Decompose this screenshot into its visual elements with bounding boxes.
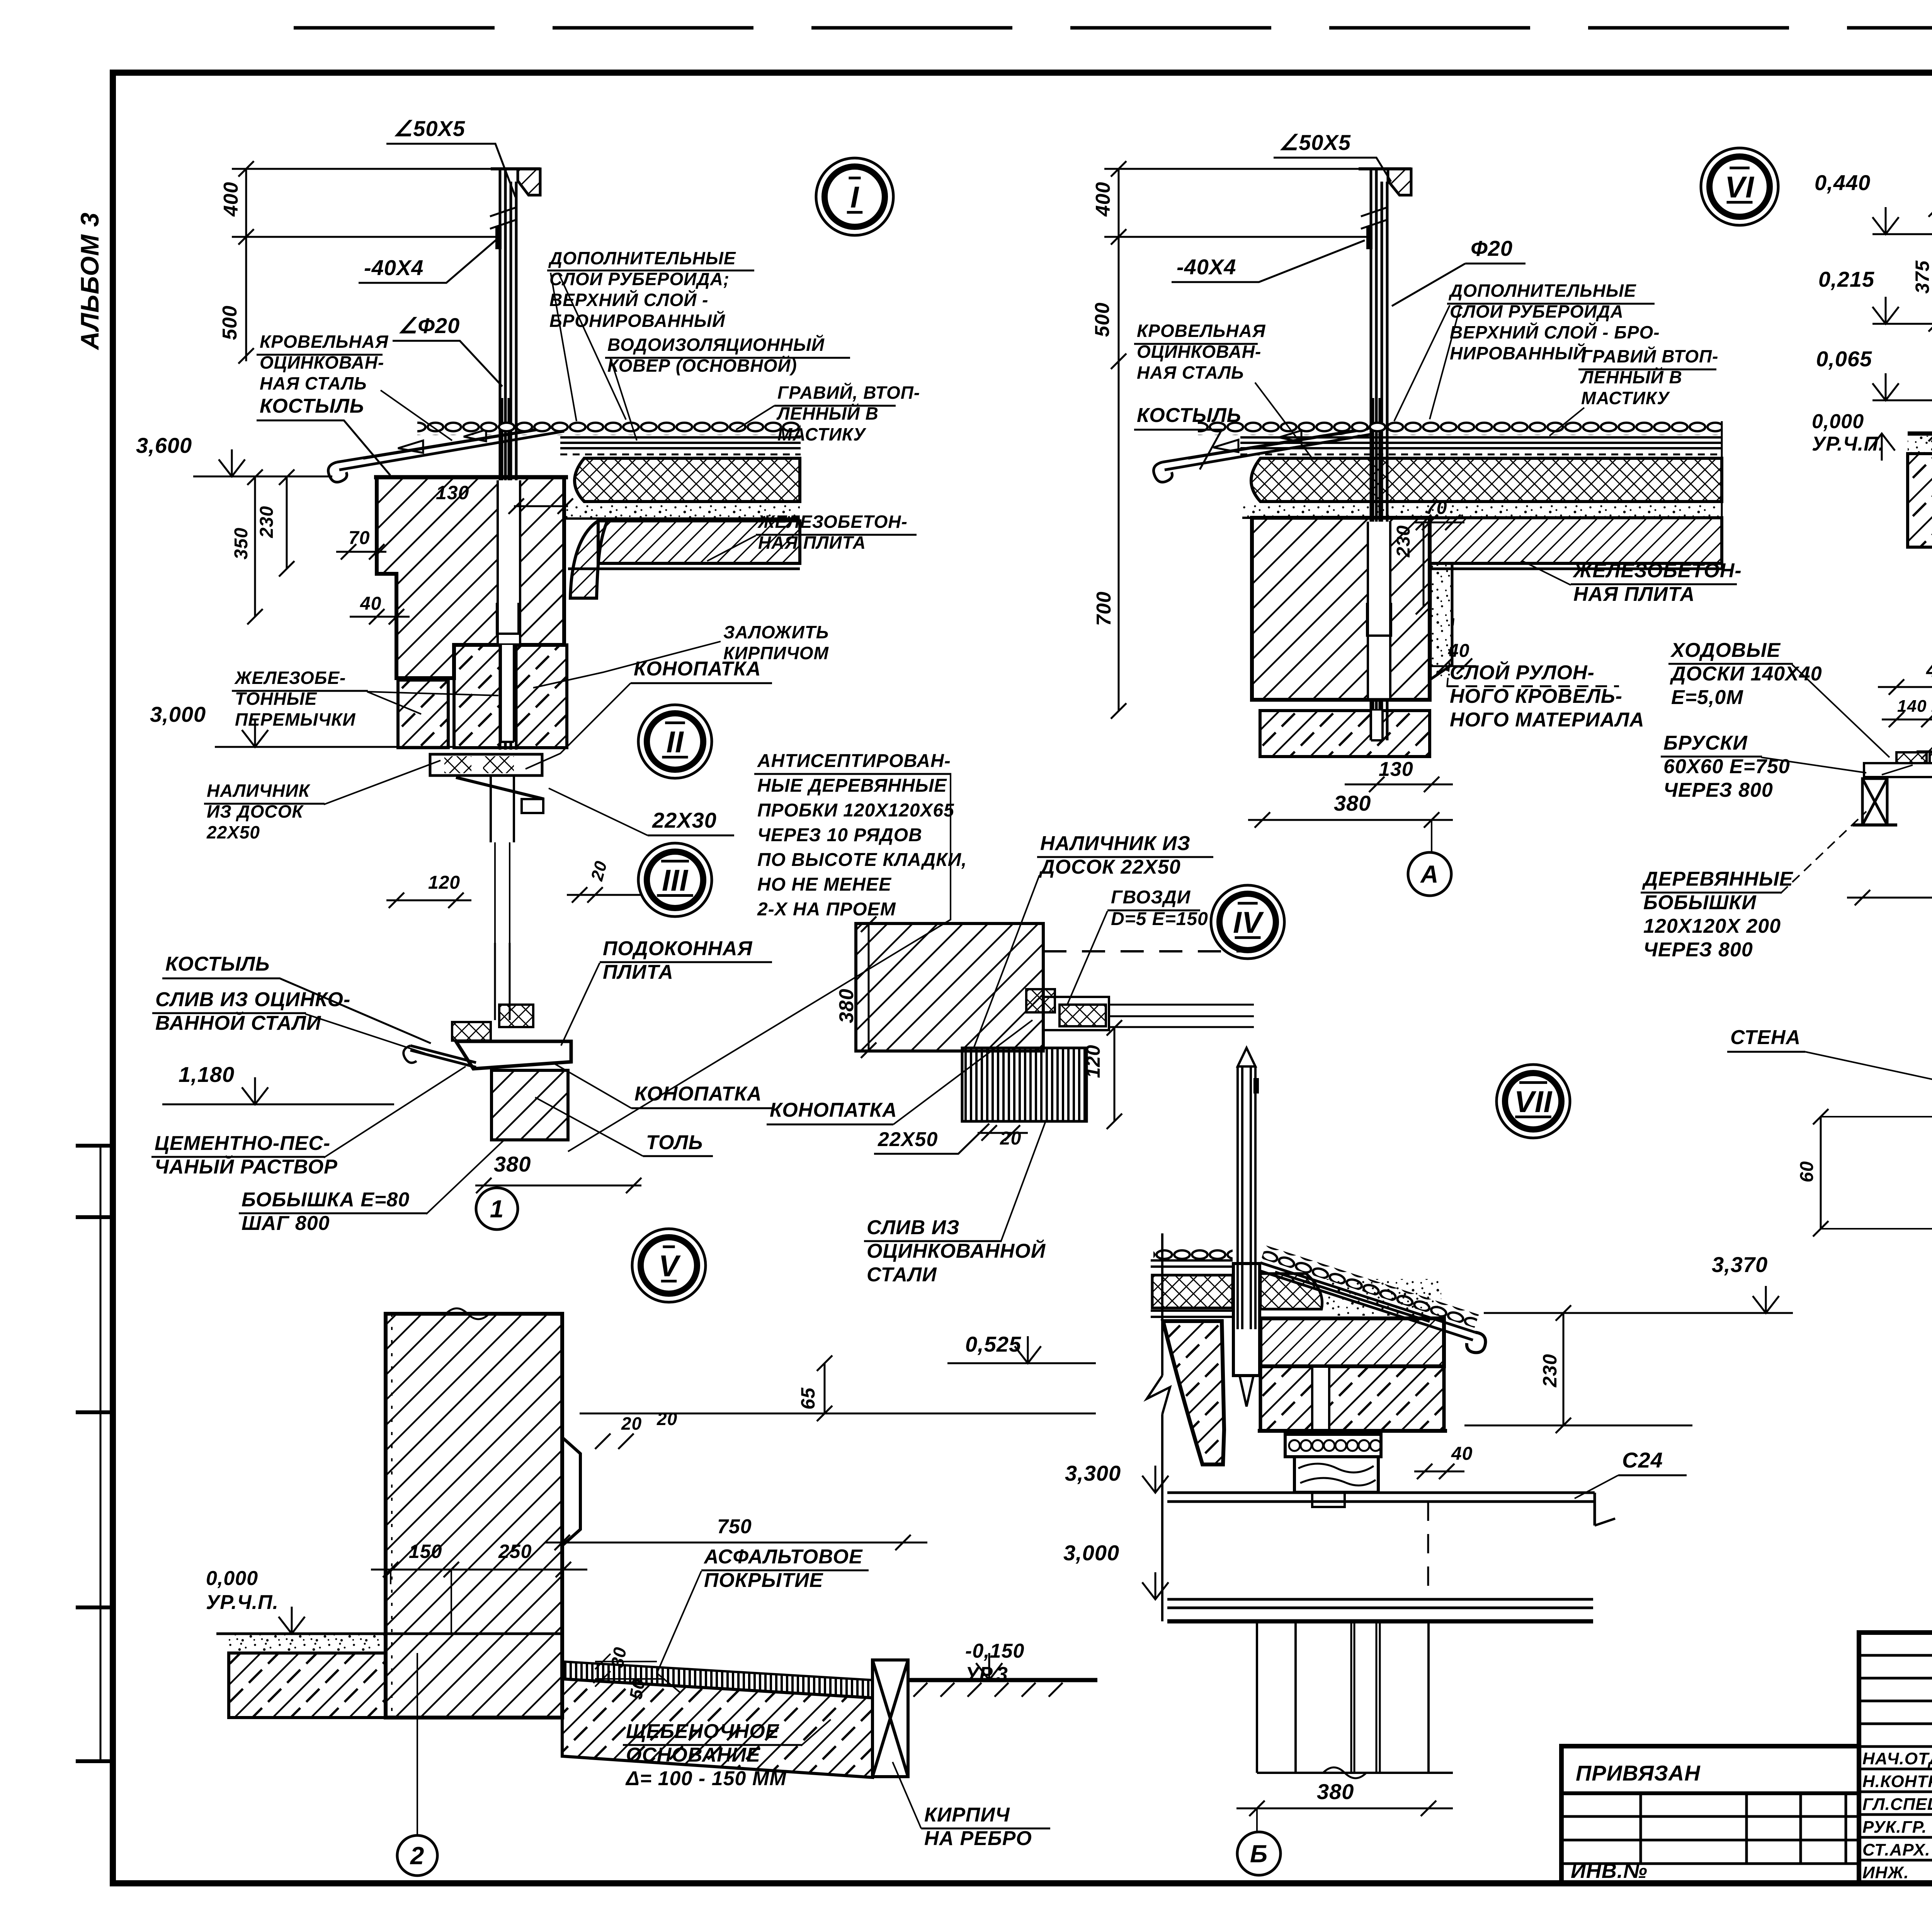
svg-text:0,000: 0,000 <box>1812 410 1864 433</box>
svg-text:ЧАНЫЙ РАСТВОР: ЧАНЫЙ РАСТВОР <box>155 1155 338 1178</box>
svg-text:375: 375 <box>1912 260 1932 294</box>
svg-text:ВЕРХНИЙ СЛОЙ - БРО-: ВЕРХНИЙ СЛОЙ - БРО- <box>1450 322 1660 342</box>
detail V asphalt band <box>562 1662 872 1698</box>
svg-text:ПЕРЕМЫЧКИ: ПЕРЕМЫЧКИ <box>235 709 355 730</box>
svg-text:20: 20 <box>656 1409 677 1429</box>
svg-text:22X50: 22X50 <box>878 1128 938 1151</box>
detail VI gravel layer <box>1198 421 1722 435</box>
detail VII gravel right sloped <box>1261 1245 1479 1328</box>
svg-text:ОСНОВАНИЕ: ОСНОВАНИЕ <box>626 1744 760 1766</box>
svg-text:ЩЕБЕНОЧНОЕ: ЩЕБЕНОЧНОЕ <box>626 1720 779 1743</box>
detail V gravel base <box>562 1679 872 1777</box>
svg-text:БРОНИРОВАННЫЙ: БРОНИРОВАННЫЙ <box>549 311 725 331</box>
svg-text:ЖЕЛЕЗОБЕТОН-: ЖЕЛЕЗОБЕТОН- <box>757 512 908 532</box>
detail VI eaves flashing <box>1162 428 1371 470</box>
detail V circle <box>632 1229 706 1302</box>
sill drip flashing <box>410 1046 476 1067</box>
detail VII mortar patch <box>1325 1279 1441 1316</box>
svg-text:НА РЕБРО: НА РЕБРО <box>924 1827 1032 1850</box>
svg-text:0,525: 0,525 <box>965 1332 1021 1356</box>
detail I gravel layer <box>417 421 801 435</box>
svg-text:НОГО МАТЕРИАЛА: НОГО МАТЕРИАЛА <box>1450 709 1645 731</box>
svg-text:ПОДОКОННАЯ: ПОДОКОННАЯ <box>603 937 753 960</box>
svg-text:ИНЖ.: ИНЖ. <box>1862 1863 1909 1882</box>
svg-text:3,370: 3,370 <box>1712 1252 1768 1277</box>
detail VII insulation right <box>1260 1274 1322 1309</box>
detail VI wall <box>1252 518 1430 700</box>
svg-text:СЛИВ ИЗ: СЛИВ ИЗ <box>867 1216 960 1239</box>
svg-text:АСФАЛЬТОВОЕ: АСФАЛЬТОВОЕ <box>703 1546 863 1568</box>
detail VI membrane layers <box>1240 437 1722 448</box>
svg-text:1,180: 1,180 <box>179 1062 235 1087</box>
svg-text:Ф20: Ф20 <box>1471 236 1513 260</box>
svg-text:БОБЫШКА Е=80: БОБЫШКА Е=80 <box>241 1189 410 1211</box>
svg-text:КОСТЫЛЬ: КОСТЫЛЬ <box>1137 404 1242 427</box>
detail I extension line strap <box>232 236 498 238</box>
svg-text:380: 380 <box>494 1152 531 1176</box>
svg-text:АЛЬБОМ 3: АЛЬБОМ 3 <box>75 212 104 350</box>
svg-text:∠50X5: ∠50X5 <box>1279 130 1351 155</box>
title block left table <box>1561 1746 1859 1883</box>
svg-text:СТЕНА: СТЕНА <box>1730 1026 1801 1049</box>
sill wall below <box>492 1070 568 1140</box>
svg-text:СЛИВ ИЗ ОЦИНКО-: СЛИВ ИЗ ОЦИНКО- <box>155 988 350 1011</box>
svg-text:РУК.ГР.: РУК.ГР. <box>1862 1818 1927 1837</box>
axis circle B bottom <box>1256 1808 1258 1832</box>
detail VII packing box <box>1294 1457 1378 1492</box>
detail VII mast sleeve <box>1233 1264 1260 1376</box>
svg-text:НАЯ СТАЛЬ: НАЯ СТАЛЬ <box>260 373 367 393</box>
svg-text:ЦЕМЕНТНО-ПЕС-: ЦЕМЕНТНО-ПЕС- <box>155 1132 330 1155</box>
detail I lintel left <box>398 680 448 748</box>
svg-text:ХОДОВЫЕ: ХОДОВЫЕ <box>1670 639 1781 662</box>
svg-text:А: А <box>1420 860 1439 888</box>
svg-text:СТ.АРХ.: СТ.АРХ. <box>1862 1840 1930 1859</box>
svg-text:Б: Б <box>1250 1840 1268 1867</box>
detail I window head <box>430 754 542 776</box>
svg-text:СТАЛИ: СТАЛИ <box>867 1264 937 1286</box>
detail VI mast through lintel <box>1371 711 1383 742</box>
svg-text:20: 20 <box>621 1413 642 1434</box>
svg-text:0,065: 0,065 <box>1816 347 1872 371</box>
detail I dimension chain 400/500 <box>238 161 254 364</box>
svg-text:ДОСКИ 140X40: ДОСКИ 140X40 <box>1670 663 1822 685</box>
detail VI dim chain 400/500/700 <box>1111 161 1126 719</box>
svg-text:КОСТЫЛЬ: КОСТЫЛЬ <box>165 953 270 975</box>
svg-text:120: 120 <box>428 872 460 893</box>
svg-text:ОЦИНКОВАННОЙ: ОЦИНКОВАННОЙ <box>867 1239 1046 1262</box>
svg-text:СЛОЙ РУЛОН-: СЛОЙ РУЛОН- <box>1450 661 1595 684</box>
svg-text:20: 20 <box>1000 1128 1021 1149</box>
svg-text:ПЛИТА: ПЛИТА <box>603 961 673 983</box>
svg-text:КОНОПАТКА: КОНОПАТКА <box>770 1099 897 1121</box>
detail V brick on edge <box>872 1660 908 1777</box>
detail VII mast <box>1238 1066 1255 1329</box>
svg-text:ЧЕРЕЗ 800: ЧЕРЕЗ 800 <box>1663 779 1773 801</box>
detail VI mortar dots <box>1242 504 1722 518</box>
svg-text:КРОВЕЛЬНАЯ: КРОВЕЛЬНАЯ <box>260 332 389 352</box>
svg-text:КИРПИЧ: КИРПИЧ <box>924 1804 1010 1826</box>
svg-text:ЧЕРЕЗ 10 РЯДОВ: ЧЕРЕЗ 10 РЯДОВ <box>757 825 922 845</box>
svg-text:ГВОЗДИ: ГВОЗДИ <box>1111 887 1191 908</box>
svg-text:60: 60 <box>1797 1161 1817 1182</box>
detail V floor slab <box>229 1634 386 1653</box>
detail IV circle <box>1211 885 1284 959</box>
svg-text:IV: IV <box>1233 905 1264 939</box>
svg-text:УР.3: УР.3 <box>965 1663 1008 1685</box>
svg-text:-40X4: -40X4 <box>1177 255 1236 279</box>
svg-text:70: 70 <box>349 528 370 548</box>
svg-text:НАЧ.ОТД.: НАЧ.ОТД. <box>1862 1749 1932 1768</box>
sill board <box>456 1041 571 1069</box>
svg-text:230: 230 <box>257 506 277 538</box>
sill window frame <box>495 943 510 1020</box>
detail IV jamb blocks <box>1026 989 1055 1012</box>
svg-text:120X120X 200: 120X120X 200 <box>1643 915 1781 937</box>
svg-text:30: 30 <box>607 1645 630 1669</box>
svg-text:ПРОБКИ 120X120X65: ПРОБКИ 120X120X65 <box>757 800 954 821</box>
detail VII parapet slab <box>1260 1318 1444 1366</box>
detail III circle <box>638 843 712 917</box>
svg-text:ПРИВЯЗАН: ПРИВЯЗАН <box>1576 1761 1701 1785</box>
detail VII funnel <box>1163 1321 1224 1464</box>
detail I mast angle 50x5 <box>491 167 540 170</box>
detail VI rod f20 <box>1373 398 1379 734</box>
svg-text:ВАННОЙ СТАЛИ: ВАННОЙ СТАЛИ <box>155 1011 321 1034</box>
svg-text:400: 400 <box>1092 182 1114 217</box>
svg-text:750: 750 <box>717 1515 752 1538</box>
detail I ceiling line <box>568 568 800 570</box>
detail VII membranes left <box>1151 1311 1233 1317</box>
detail VI ceiling line <box>1252 698 1430 702</box>
detail I wall top line <box>374 475 568 480</box>
svg-text:∠50X5: ∠50X5 <box>393 116 465 141</box>
svg-text:НОГО КРОВЕЛЬ-: НОГО КРОВЕЛЬ- <box>1450 685 1622 707</box>
detail VII top beam <box>1167 1493 1595 1526</box>
svg-text:ШАГ 800: ШАГ 800 <box>241 1212 330 1235</box>
svg-text:350: 350 <box>231 527 252 560</box>
svg-text:380: 380 <box>1334 791 1371 815</box>
svg-text:КОНОПАТКА: КОНОПАТКА <box>634 1083 762 1105</box>
detail I insulation <box>575 458 800 502</box>
detail VII circle <box>1497 1065 1570 1138</box>
svg-text:500: 500 <box>1091 302 1114 337</box>
detail V ground under floor <box>229 1653 386 1718</box>
svg-text:КОНОПАТКА: КОНОПАТКА <box>634 658 761 680</box>
svg-text:ИНВ.№: ИНВ.№ <box>1571 1859 1648 1883</box>
svg-text:ДОСОК 22X50: ДОСОК 22X50 <box>1039 856 1181 878</box>
svg-text:ДОПОЛНИТЕЛЬНЫЕ: ДОПОЛНИТЕЛЬНЫЕ <box>548 248 736 268</box>
svg-text:140: 140 <box>1897 697 1927 716</box>
detail VII gravel left <box>1153 1247 1233 1261</box>
detail VII flashing left <box>1151 1260 1233 1267</box>
svg-text:НЫЕ ДЕРЕВЯННЫЕ: НЫЕ ДЕРЕВЯННЫЕ <box>757 776 947 796</box>
svg-text:НАЛИЧНИК ИЗ: НАЛИЧНИК ИЗ <box>1040 832 1190 855</box>
detail VI circle <box>1701 148 1778 225</box>
detail I strap -40x4 <box>495 226 502 249</box>
detail VI strap -40x4 <box>1366 226 1372 249</box>
svg-text:III: III <box>662 863 688 897</box>
svg-text:250: 250 <box>498 1541 532 1562</box>
detail VI lintel <box>1260 711 1430 757</box>
svg-text:120: 120 <box>1082 1045 1104 1078</box>
svg-text:40: 40 <box>1451 1444 1473 1464</box>
detail VII flashing slope <box>1259 1263 1475 1340</box>
detail VII insulation left <box>1152 1275 1233 1308</box>
svg-text:НИРОВАННЫЙ: НИРОВАННЫЙ <box>1450 343 1586 363</box>
detail I wall <box>377 477 564 678</box>
detail VII wall face line <box>1161 1233 1163 1621</box>
svg-text:1: 1 <box>490 1195 504 1223</box>
svg-text:СЛОИ РУБЕРОИДА;: СЛОИ РУБЕРОИДА; <box>549 269 730 289</box>
detail IV wall plan <box>856 923 1043 1051</box>
detail IV window frame plan lines <box>1108 1005 1254 1027</box>
detail V wall <box>386 1314 562 1718</box>
detail VI mast angle 50x5 <box>1359 167 1411 170</box>
detail V plinth step <box>562 1437 580 1546</box>
detail I circle <box>816 158 893 235</box>
detail VIII platform left <box>1908 432 1932 436</box>
svg-text:БОБЫШКИ: БОБЫШКИ <box>1643 891 1757 914</box>
detail VI roof slab <box>1430 518 1722 563</box>
detail VII masonry band <box>1260 1366 1444 1431</box>
detail I mast <box>500 169 516 750</box>
svg-text:ЖЕЛЕЗОБЕТОН-: ЖЕЛЕЗОБЕТОН- <box>1572 560 1742 582</box>
svg-text:НАЛИЧНИК: НАЛИЧНИК <box>207 781 311 801</box>
detail I extension line top <box>232 168 522 170</box>
title block names table <box>1859 1633 1932 1883</box>
svg-text:ЧЕРЕЗ 800: ЧЕРЕЗ 800 <box>1643 939 1753 961</box>
svg-text:230: 230 <box>1393 525 1414 558</box>
IX walk boards plan <box>1864 763 1932 777</box>
svg-text:МАСТИКУ: МАСТИКУ <box>777 424 867 444</box>
svg-text:НАЯ ПЛИТА: НАЯ ПЛИТА <box>1573 583 1695 605</box>
detail I lintel right <box>454 645 567 748</box>
detail IV nalichnik board (vertical hatch) <box>962 1048 1087 1121</box>
svg-text:400: 400 <box>220 182 242 217</box>
svg-text:0,000: 0,000 <box>206 1567 258 1590</box>
svg-text:230: 230 <box>1539 1354 1561 1388</box>
IX supports <box>1862 779 1887 825</box>
svg-text:0,440: 0,440 <box>1815 170 1871 195</box>
svg-text:ДЕРЕВЯННЫЕ: ДЕРЕВЯННЫЕ <box>1642 868 1793 890</box>
svg-text:КРОВЕЛЬНАЯ: КРОВЕЛЬНАЯ <box>1137 321 1266 341</box>
svg-text:65: 65 <box>797 1387 819 1410</box>
detail VII gland coils <box>1285 1434 1381 1457</box>
node circle 2 <box>417 1653 418 1835</box>
svg-text:ПО ВЫСОТЕ КЛАДКИ,: ПО ВЫСОТЕ КЛАДКИ, <box>757 850 967 870</box>
detail VI apron strip <box>1430 563 1452 679</box>
svg-text:VI: VI <box>1725 170 1754 204</box>
svg-text:БРУСКИ: БРУСКИ <box>1663 732 1748 754</box>
svg-text:130: 130 <box>436 482 469 503</box>
svg-text:ПОКРЫТИЕ: ПОКРЫТИЕ <box>704 1569 823 1592</box>
svg-text:∠Ф20: ∠Ф20 <box>398 313 460 338</box>
svg-text:D=5 E=150: D=5 E=150 <box>1111 909 1208 929</box>
svg-text:УР.Ч.П.: УР.Ч.П. <box>206 1591 279 1614</box>
svg-text:0,215: 0,215 <box>1818 267 1874 291</box>
detail VII columns <box>1257 1621 1429 1773</box>
detail I roof slab <box>598 521 800 563</box>
svg-text:ГЛ.СПЕЦ.: ГЛ.СПЕЦ. <box>1862 1795 1932 1814</box>
svg-text:ГРАВИЙ ВТОП-: ГРАВИЙ ВТОП- <box>1581 346 1718 366</box>
svg-text:VII: VII <box>1514 1085 1553 1119</box>
svg-text:-0,150: -0,150 <box>965 1640 1024 1662</box>
svg-text:ВОДОИЗОЛЯЦИОННЫЙ: ВОДОИЗОЛЯЦИОННЫЙ <box>607 335 825 355</box>
svg-text:С24: С24 <box>1622 1448 1663 1472</box>
svg-text:МАСТИКУ: МАСТИКУ <box>1581 388 1670 408</box>
detail I membrane layers <box>560 437 801 448</box>
svg-text:ДОПОЛНИТЕЛЬНЫЕ: ДОПОЛНИТЕЛЬНЫЕ <box>1448 281 1636 301</box>
svg-text:500: 500 <box>219 305 241 340</box>
svg-text:50: 50 <box>626 1677 649 1701</box>
axis circle A <box>1431 820 1432 852</box>
svg-text:ТОЛЬ: ТОЛЬ <box>646 1131 703 1154</box>
svg-text:40: 40 <box>360 594 381 614</box>
detail I eaves flashing <box>337 425 564 470</box>
svg-text:ЗАЛОЖИТЬ: ЗАЛОЖИТЬ <box>723 622 829 642</box>
left margin fold ticks <box>76 1144 113 1148</box>
svg-text:380: 380 <box>1317 1779 1354 1804</box>
detail VI slab right torn edge <box>1721 421 1723 569</box>
detail I window frame verticals <box>495 842 510 981</box>
node circle 1 <box>496 1185 498 1188</box>
detail V ground line right <box>908 1678 1097 1682</box>
detail I mortar bed dots <box>565 504 800 519</box>
svg-text:22X50: 22X50 <box>206 822 260 842</box>
svg-text:Δ= 100 - 150 ММ: Δ= 100 - 150 ММ <box>625 1767 787 1790</box>
detail VI insulation <box>1251 458 1722 502</box>
sheet top edge dashed line <box>294 26 1932 30</box>
svg-text:-40X4: -40X4 <box>364 255 423 280</box>
detail I mast channel <box>498 480 520 646</box>
svg-text:3,000: 3,000 <box>150 702 206 726</box>
detail VI mast <box>1371 169 1387 740</box>
detail VI mast channel <box>1368 522 1390 700</box>
svg-text:3,000: 3,000 <box>1063 1541 1119 1565</box>
detail I rod f20 <box>502 398 509 739</box>
svg-text:НАЯ СТАЛЬ: НАЯ СТАЛЬ <box>1137 362 1244 383</box>
svg-text:АНТИСЕПТИРОВАН-: АНТИСЕПТИРОВАН- <box>757 751 951 771</box>
svg-text:II: II <box>666 725 684 759</box>
svg-text:V: V <box>658 1249 681 1283</box>
svg-text:E=5,0М: E=5,0М <box>1671 686 1743 709</box>
VIII dim chain 375 <box>1929 201 1932 441</box>
svg-text:КОСТЫЛЬ: КОСТЫЛЬ <box>260 395 364 417</box>
detail VII bottom beam <box>1167 1599 1593 1608</box>
svg-text:380: 380 <box>835 988 858 1023</box>
svg-text:ГРАВИЙ, ВТОП-: ГРАВИЙ, ВТОП- <box>777 383 920 403</box>
svg-text:Н.КОНТР.: Н.КОНТР. <box>1862 1772 1932 1791</box>
detail V wall plaster line <box>391 1314 393 1718</box>
svg-text:НО НЕ МЕНЕЕ: НО НЕ МЕНЕЕ <box>757 874 892 895</box>
svg-text:700: 700 <box>1093 591 1115 626</box>
detail I mast through lintel <box>501 645 514 742</box>
svg-text:150: 150 <box>409 1541 442 1562</box>
svg-text:3,300: 3,300 <box>1065 1461 1121 1485</box>
svg-text:450: 450 <box>1926 659 1932 682</box>
detail II circle <box>638 705 712 778</box>
svg-text:I: I <box>850 180 859 214</box>
svg-text:3,600: 3,600 <box>136 433 192 457</box>
svg-text:22X30: 22X30 <box>652 808 717 832</box>
svg-text:2: 2 <box>410 1842 425 1869</box>
svg-text:ЖЕЛЕЗОБЕ-: ЖЕЛЕЗОБЕ- <box>234 668 346 688</box>
